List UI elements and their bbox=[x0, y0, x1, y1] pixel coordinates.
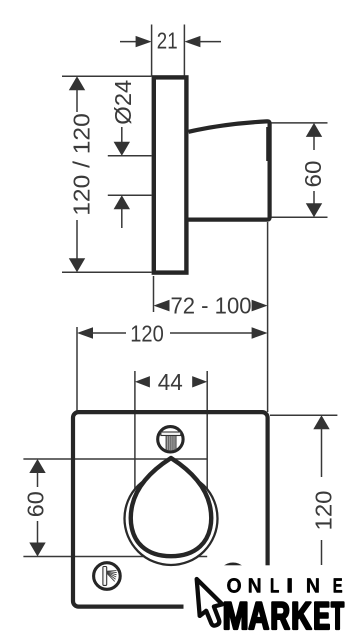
dim 60 (side) top tick bbox=[272, 122, 328, 124]
icon overhead shower (top) bbox=[158, 427, 183, 452]
handle edge seam bbox=[266, 127, 268, 161]
dim 44 right arrow bbox=[192, 376, 207, 387]
dim 120/120 up arrow bbox=[69, 76, 85, 90]
dim O24 up arrow bbox=[114, 195, 130, 209]
dim 60 (front) top tick bbox=[23, 458, 207, 460]
dim 120 (front top) left arrow bbox=[77, 327, 93, 339]
logo text ONLINE bbox=[227, 578, 342, 593]
dim 120/120 bottom tick bbox=[62, 271, 152, 273]
svg-text:Ø24: Ø24 bbox=[110, 79, 136, 124]
dim 21 extension line right bbox=[183, 25, 185, 76]
dim 120 (front right) up arrow bbox=[313, 415, 329, 429]
dim 60 (side) bottom tick bbox=[272, 216, 328, 218]
svg-text:60: 60 bbox=[22, 491, 48, 517]
dim 60 (front) bottom tick bbox=[23, 556, 207, 558]
dim O24 bottom tick bbox=[108, 194, 152, 196]
svg-text:44: 44 bbox=[158, 369, 183, 395]
dim 120 (front right) lower leader (cut by logo) bbox=[321, 540, 323, 565]
icon hand shower (bottom left) bbox=[94, 563, 121, 590]
dim 120/120 down arrow bbox=[76, 220, 78, 259]
wall plate side view bbox=[154, 77, 187, 272]
svg-text:60: 60 bbox=[300, 161, 326, 188]
svg-text:120 / 120: 120 / 120 bbox=[69, 113, 95, 216]
svg-text:21: 21 bbox=[157, 27, 178, 53]
dim 72-100 left extension bbox=[153, 276, 155, 312]
dim 21 right arrow and leader bbox=[184, 36, 200, 47]
dim 60 (side) down arrow bbox=[313, 191, 315, 204]
icon circle (bottom right, partially covered) bbox=[220, 564, 247, 591]
handle side view bbox=[189, 121, 270, 219]
front plate bbox=[73, 412, 268, 606]
logo text MARKET bbox=[225, 602, 344, 629]
dim 21 left leader and arrow bbox=[120, 41, 138, 43]
dim 44 left arrow bbox=[135, 376, 150, 387]
dim 60 (side) up arrow bbox=[306, 123, 322, 137]
dim 72-100 right extension (continues to 120 dim) bbox=[267, 222, 269, 412]
dim 120 (front top) right leader and arrow bbox=[170, 332, 255, 334]
logo white background bbox=[184, 565, 355, 640]
dim 60 (front) up arrow bbox=[29, 459, 45, 473]
logo cursor arrow bbox=[197, 579, 223, 626]
dim 72-100 left arrow bbox=[154, 300, 170, 312]
dim 44 right extension bbox=[206, 371, 208, 504]
knob teardrop bbox=[131, 458, 211, 556]
dim 120 (front right) top tick bbox=[270, 414, 337, 416]
svg-text:72 - 100: 72 - 100 bbox=[171, 293, 252, 319]
dim 120 (front top) left extension bbox=[76, 327, 78, 411]
dim 120/120 top tick bbox=[62, 75, 152, 77]
knob thin circle bbox=[125, 472, 218, 565]
svg-text:120: 120 bbox=[130, 321, 164, 347]
svg-text:120: 120 bbox=[310, 491, 336, 531]
dim O24 top tick bbox=[108, 155, 152, 157]
dim 60 (front) down arrow bbox=[37, 521, 39, 543]
dim 21 extension line left bbox=[151, 25, 153, 76]
dim O24 down arrow bbox=[121, 127, 123, 143]
dim 72-100 right arrow bbox=[252, 300, 268, 312]
dim 44 left extension bbox=[134, 371, 136, 498]
